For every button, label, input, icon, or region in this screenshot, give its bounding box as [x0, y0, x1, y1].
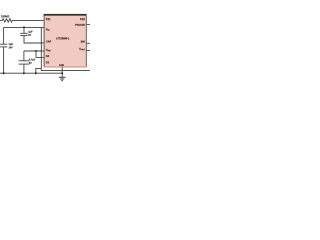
pin D1 label: [46, 62, 49, 64]
wire VIN horizontal: [4, 26, 44, 28]
wire left branch vertical upper: [3, 27, 5, 44]
pin VIN label: [46, 28, 50, 30]
capacitor C2 value 1uF 6V label: [28, 31, 32, 33]
capacitor C3 4.7uF 6V plates: [19, 61, 30, 64]
node rail left: [3, 72, 5, 74]
pin VOUT label: [79, 48, 85, 50]
pin VIN2 label: [46, 49, 51, 51]
capacitor C1 value 1uF 16V label: [9, 43, 13, 45]
pin PGOOD label: [75, 24, 84, 26]
resistor R1 value 100k label: [1, 15, 9, 17]
wire PZ1: [12, 19, 44, 21]
wire ground link jog: [36, 68, 42, 73]
wire C2 top stub: [23, 27, 25, 33]
wire VIN2 down to C3: [23, 51, 25, 61]
IC name label LTC3588-1: [56, 37, 69, 39]
op-amp U1 LTC3588-1 IC body: [44, 14, 87, 67]
node rail C3: [23, 72, 25, 74]
wire VIN2 horizontal: [24, 50, 44, 52]
wire GND stub: [61, 67, 63, 77]
wire C3 bottom: [23, 64, 25, 73]
capacitor C2 1uF 6V plates: [20, 33, 27, 35]
ground: [59, 77, 66, 80]
wire VIN drop and lower rail to right edge: [41, 27, 90, 70]
pin CAP label: [46, 41, 51, 43]
wire D0 jog: [36, 51, 44, 57]
wire VOUT: [86, 49, 90, 51]
resistor R1 100k zigzag: [0, 19, 12, 22]
node rail gnd: [61, 72, 63, 74]
node rail link: [35, 72, 37, 74]
wire left branch vertical lower: [3, 47, 5, 73]
wire C2 bottom to CAP pin: [24, 36, 44, 43]
node VIN junction: [23, 26, 25, 28]
wire ground rail: [0, 72, 62, 74]
node VIN2-D0 junction: [35, 50, 37, 52]
capacitor C1 1uF 16V plates: [0, 44, 7, 47]
capacitor C3 value 4.7uF 6V label: [29, 59, 35, 61]
wire SW: [86, 42, 90, 44]
pin PZ2 label: [80, 18, 84, 20]
pin SW label: [81, 41, 85, 43]
pin D0 label: [46, 55, 49, 57]
pin PZ1 label: [46, 18, 51, 20]
wire PGOOD: [86, 23, 90, 25]
pin GND label: [59, 64, 64, 66]
